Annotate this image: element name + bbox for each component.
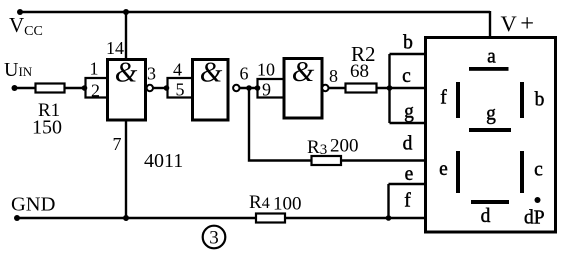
7-segment display box [426,38,556,233]
svg-text:b: b [535,90,545,111]
wire pin 7 vertical to GND [125,121,127,219]
svg-text:5: 5 [176,80,185,100]
wire to display g [390,122,426,124]
pins 1-2 input box of gate U1a [86,78,108,98]
node U_IN terminal dot [12,85,18,91]
decimal point dP dot [535,197,541,203]
svg-text:V+: V+ [501,10,535,37]
wire U_IN input to R1 [15,87,36,89]
wire R4 to display f [285,217,426,219]
svg-text:200: 200 [330,136,359,157]
svg-text:6: 6 [240,64,249,84]
wire V+ lead down to display [489,11,491,38]
svg-text:&: & [292,56,315,88]
segment a bar [469,67,509,71]
inverter bubble pin 8 [322,85,328,91]
svg-text:GND: GND [11,194,55,216]
svg-text:c: c [534,160,543,181]
wire gate1 output to pins 4-5 box [153,87,168,89]
junction top rail to pin 14 [123,9,129,15]
figure number circled 3 [203,226,226,249]
inverter bubble pin 3 [147,85,153,91]
svg-text:9: 9 [262,80,271,100]
svg-text:R4: R4 [249,192,270,213]
wire bracket e-f vertical [387,184,389,218]
svg-text:f: f [440,88,447,109]
pins 4-5 input box of gate U1b [168,78,193,98]
wire pin 14 vertical [125,12,127,61]
NAND gate U1a body [108,60,146,121]
NAND gate U1c body [284,59,322,119]
svg-text:UIN: UIN [4,59,33,81]
resistor R2 body [346,84,377,93]
junction at pins 1-2 box [82,85,88,91]
segment f bar [456,82,460,118]
wire to display b [390,53,426,55]
svg-text:VCC: VCC [9,13,43,39]
svg-text:14: 14 [106,38,124,58]
wire GND rail to R4 [17,217,256,219]
svg-text:b: b [403,33,413,54]
svg-text:c: c [402,66,411,87]
svg-text:e: e [405,164,414,185]
junction f wire to e-f bracket [386,215,392,221]
svg-text:3: 3 [209,228,219,249]
svg-text:68: 68 [350,61,369,82]
node VCC terminal dot [17,9,23,15]
wire R1 to pins 1-2 box [65,87,86,89]
svg-text:1: 1 [90,59,99,79]
NAND gate U1b body [193,60,229,121]
wire branch pin6 down and to R3 [249,88,312,161]
wire top VCC rail [20,11,490,13]
svg-text:4: 4 [173,60,182,80]
svg-text:&: & [200,57,223,89]
resistor R3 body [312,156,342,165]
inverter bubble pin 6 [233,85,239,91]
segment b bar [520,82,524,118]
svg-text:d: d [403,134,413,155]
node GND terminal dot [14,215,20,221]
wire bracket b-c-g vertical [388,54,390,123]
segment e bar [456,151,460,193]
svg-text:R3: R3 [307,137,327,158]
wire gate3 output to R2 [329,87,346,89]
svg-text:f: f [404,191,411,212]
svg-text:10: 10 [257,60,275,80]
wire to display e [389,183,426,185]
svg-text:7: 7 [113,134,122,154]
svg-text:&: & [115,57,138,89]
segment g bar [469,128,511,132]
svg-text:g: g [486,104,496,125]
svg-text:150: 150 [32,117,62,139]
resistor R4 body [256,214,285,223]
svg-text:e: e [439,159,448,180]
svg-text:dP: dP [524,208,545,229]
junction GND to pin 7 [123,215,129,221]
wire R2 to display c [377,87,426,89]
wire gate2 output to pins 10-9 box [240,87,258,89]
svg-text:2: 2 [91,81,100,101]
svg-text:8: 8 [329,66,338,86]
svg-text:3: 3 [147,64,156,84]
wire R3 to display d [341,159,426,161]
junction at pins 4-5 box [164,85,170,91]
svg-text:100: 100 [273,194,302,215]
pins 10-9 input box of gate U1c [258,79,285,98]
junction R2 output to b-c-g bracket [387,85,393,91]
segment c bar [520,151,524,193]
junction at pins 10-9 box [255,85,261,91]
junction pin 6 branch [246,85,252,91]
segment d bar [471,200,509,204]
svg-text:a: a [487,47,496,68]
resistor R1 body [36,84,65,93]
svg-text:g: g [404,102,414,123]
svg-text:4011: 4011 [144,150,183,172]
svg-text:d: d [481,206,491,227]
